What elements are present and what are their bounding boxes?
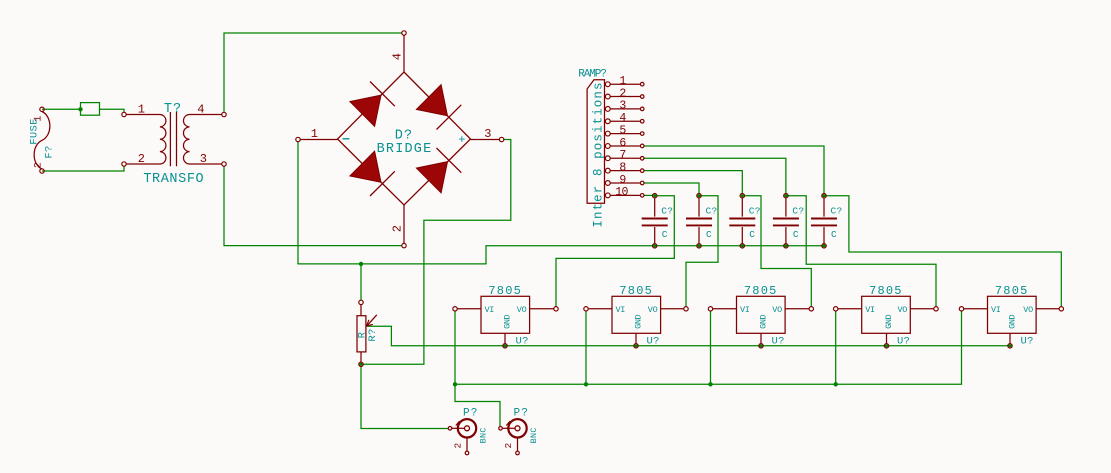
transformer pin 2 — [122, 162, 126, 166]
svg-text:1: 1 — [138, 102, 146, 116]
svg-text:GND: GND — [1007, 314, 1017, 328]
connector pin 4 — [605, 119, 610, 124]
svg-text:C?: C? — [831, 205, 843, 216]
reg U3 pin GND — [760, 333, 762, 343]
svg-text:BNC: BNC — [529, 427, 539, 443]
svg-text:VO: VO — [517, 305, 527, 315]
svg-text:7805: 7805 — [869, 284, 903, 298]
wire junction to potentiometer top — [360, 264, 362, 300]
svg-text:VI: VI — [485, 305, 495, 315]
svg-text:P?: P? — [463, 407, 479, 419]
svg-text:+: + — [458, 133, 466, 147]
capacitor C2 — [697, 194, 701, 198]
svg-text:C?: C? — [792, 205, 804, 216]
wire capacitor C1 top to reg U1 VO — [556, 196, 674, 307]
svg-text:C: C — [662, 229, 668, 240]
reg U4 pin VO — [910, 308, 934, 310]
svg-text:8: 8 — [619, 161, 626, 174]
diode top-right of bridge — [416, 85, 447, 116]
svg-text:2: 2 — [138, 152, 146, 166]
svg-text:5: 5 — [619, 124, 626, 137]
svg-text:2: 2 — [619, 87, 626, 100]
connector pin 5 — [605, 131, 610, 136]
BNC P2 pin 1 tick — [506, 421, 510, 425]
connector pin 7 — [605, 156, 610, 161]
svg-text:R?: R? — [367, 328, 379, 341]
wire connector pin10 to capacitor C1 — [644, 194, 653, 196]
wire reg U2 VI drop — [585, 311, 587, 384]
wire connector pin8 to capacitor C3 — [644, 171, 742, 194]
wire wiper to GND rail of regulators — [366, 326, 1010, 346]
diode bridge D? outline — [338, 72, 471, 205]
svg-text:VO: VO — [1023, 305, 1033, 315]
BNC P1 pin 1 tick — [456, 421, 460, 425]
svg-text:1: 1 — [34, 115, 45, 121]
svg-text:7805: 7805 — [744, 284, 778, 298]
potentiometer wiper arrow — [368, 315, 377, 325]
svg-text:U?: U? — [647, 336, 660, 348]
svg-text:C?: C? — [706, 205, 718, 216]
svg-text:VI: VI — [740, 305, 750, 315]
diode bottom-right of bridge — [416, 162, 447, 193]
transformer pin 3 — [222, 162, 226, 166]
bridge pin 4 — [403, 35, 405, 72]
bridge pin 1 — [300, 139, 337, 141]
bridge pin 2 — [403, 205, 405, 243]
svg-text:10: 10 — [615, 186, 628, 199]
wire capacitor C3 top to reg U3 VO — [745, 196, 812, 307]
reg U5 pin GND — [1009, 333, 1011, 343]
reg U5 pin VI — [964, 308, 988, 310]
regulator 7805 U1 box — [481, 296, 530, 333]
svg-text:GND: GND — [633, 314, 643, 328]
capacitor C1 — [653, 194, 657, 198]
capacitor C3 — [740, 194, 744, 198]
svg-text:TRANSFO: TRANSFO — [143, 172, 204, 187]
connector pin 1 — [605, 82, 610, 87]
connector pin 2 — [605, 94, 610, 99]
wire reg U3 VI drop — [710, 311, 712, 384]
wire capacitor C5 top to reg U5 VO — [826, 196, 1061, 307]
svg-text:BRIDGE: BRIDGE — [377, 142, 433, 157]
svg-text:C: C — [749, 229, 755, 240]
connector pin 9 — [605, 181, 610, 186]
wire fuse top to transformer pin1 — [42, 109, 124, 112]
BNC P2 shield pin 2 — [517, 438, 519, 452]
svg-text:VO: VO — [897, 305, 907, 315]
svg-text:P?: P? — [513, 407, 529, 419]
svg-text:2: 2 — [503, 442, 514, 448]
capacitor C5 — [822, 194, 826, 198]
reg U1 pin VO — [530, 308, 554, 310]
regulator 7805 U3 box — [737, 296, 786, 333]
diode bottom-left of bridge — [350, 151, 381, 182]
reg U4 pin GND — [886, 333, 888, 343]
capacitor C4 — [784, 194, 788, 198]
svg-text:C: C — [793, 229, 799, 240]
svg-text:GND: GND — [884, 314, 894, 328]
reg U3 pin VO — [785, 308, 809, 310]
wire fuse bottom to transformer pin2 — [42, 166, 124, 171]
svg-text:GND: GND — [758, 314, 768, 328]
svg-text:VI: VI — [616, 305, 626, 315]
regulator 7805 U5 box — [988, 296, 1037, 333]
wire rail to BNC P2 — [455, 384, 500, 426]
svg-text:GND: GND — [502, 314, 512, 328]
svg-text:6: 6 — [619, 137, 626, 150]
svg-text:VI: VI — [865, 305, 875, 315]
svg-text:U?: U? — [1021, 336, 1034, 348]
svg-text:T?: T? — [164, 102, 182, 117]
svg-text:4: 4 — [391, 53, 405, 61]
svg-text:Inter 8 positions: Inter 8 positions — [592, 81, 606, 227]
svg-text:7805: 7805 — [488, 284, 522, 298]
svg-text:C: C — [831, 229, 837, 240]
reg U2 pin GND — [635, 333, 637, 343]
wire potentiometer bottom to BNC P1 — [361, 367, 448, 429]
regulator 7805 U2 box — [612, 296, 661, 333]
connector pin 3 — [605, 107, 610, 112]
svg-text:C?: C? — [661, 205, 673, 216]
svg-text:3: 3 — [619, 100, 626, 113]
reg U3 pin VI — [713, 308, 737, 310]
svg-text:3: 3 — [484, 127, 492, 141]
wire transformer pin4 to bridge pin4 — [224, 33, 402, 112]
wire capacitor C2 top to reg U2 VO — [686, 196, 718, 307]
connector pin 8 — [605, 168, 610, 173]
wire capacitor C4 top to reg U4 VO — [788, 196, 936, 307]
BNC connector P1 — [458, 419, 476, 437]
svg-text:C?: C? — [749, 205, 761, 216]
reg U2 pin VI — [588, 308, 612, 310]
svg-text:4: 4 — [619, 112, 626, 125]
wire bridge pin3 to potentiometer bottom — [363, 140, 511, 365]
svg-text:U?: U? — [772, 336, 785, 348]
svg-text:U?: U? — [516, 336, 529, 348]
wire connector pin9 to capacitor C2 — [644, 183, 699, 193]
wire bridge pin1 to capacitor ground bus — [298, 142, 824, 264]
wire VI input rail — [455, 311, 962, 384]
wire connector pin7 to capacitor C4 — [644, 158, 786, 193]
svg-text:U?: U? — [897, 336, 910, 348]
reg U4 pin VI — [838, 308, 862, 310]
transformer T1 core — [170, 112, 176, 166]
reg U5 pin VO — [1036, 308, 1059, 310]
transformer pin 4 — [222, 112, 226, 116]
svg-text:VO: VO — [772, 305, 782, 315]
transformer pin 1 — [122, 112, 126, 116]
svg-text:9: 9 — [619, 174, 626, 187]
bridge minus sign — [343, 138, 350, 140]
svg-text:7805: 7805 — [619, 284, 653, 298]
wire transformer pin3 to bridge pin2 — [224, 166, 402, 245]
erc marker green box — [81, 103, 100, 116]
svg-text:7: 7 — [619, 149, 625, 162]
node junctions on VI rail — [453, 382, 457, 386]
svg-text:3: 3 — [200, 152, 208, 166]
connector pin 10 — [605, 193, 610, 198]
bridge pin 3 — [471, 139, 500, 141]
svg-text:VO: VO — [648, 305, 658, 315]
svg-text:2: 2 — [453, 442, 464, 448]
node junction potentiometer top — [359, 262, 363, 266]
regulator 7805 U4 box — [862, 296, 911, 333]
svg-text:BNC: BNC — [479, 427, 489, 443]
reg U1 pin VI — [457, 308, 481, 310]
svg-text:2: 2 — [391, 225, 405, 233]
connector pin 6 — [605, 144, 610, 149]
transformer T1 primary winding — [126, 115, 166, 165]
svg-text:1: 1 — [311, 127, 319, 141]
transformer T1 secondary winding — [183, 115, 221, 165]
svg-text:7805: 7805 — [995, 284, 1029, 298]
connector RAMP? body — [587, 80, 604, 204]
wire reg U4 VI drop — [835, 311, 837, 384]
svg-text:RAMP?: RAMP? — [578, 69, 606, 81]
BNC connector P2 — [508, 419, 526, 437]
wire connector pin6 to capacitor C5 — [644, 146, 824, 193]
svg-text:4: 4 — [197, 102, 205, 116]
BNC P1 shield pin 2 — [466, 438, 468, 452]
svg-text:C: C — [706, 229, 712, 240]
reg U1 pin GND — [504, 333, 506, 343]
diode top-left of bridge — [350, 95, 381, 126]
reg U2 pin VO — [661, 308, 684, 310]
potentiometer R? body — [357, 316, 366, 352]
fuse F? — [34, 112, 50, 170]
svg-text:VI: VI — [991, 305, 1001, 315]
svg-text:F?: F? — [44, 145, 56, 158]
svg-text:2: 2 — [34, 162, 45, 168]
svg-text:1: 1 — [619, 75, 626, 88]
